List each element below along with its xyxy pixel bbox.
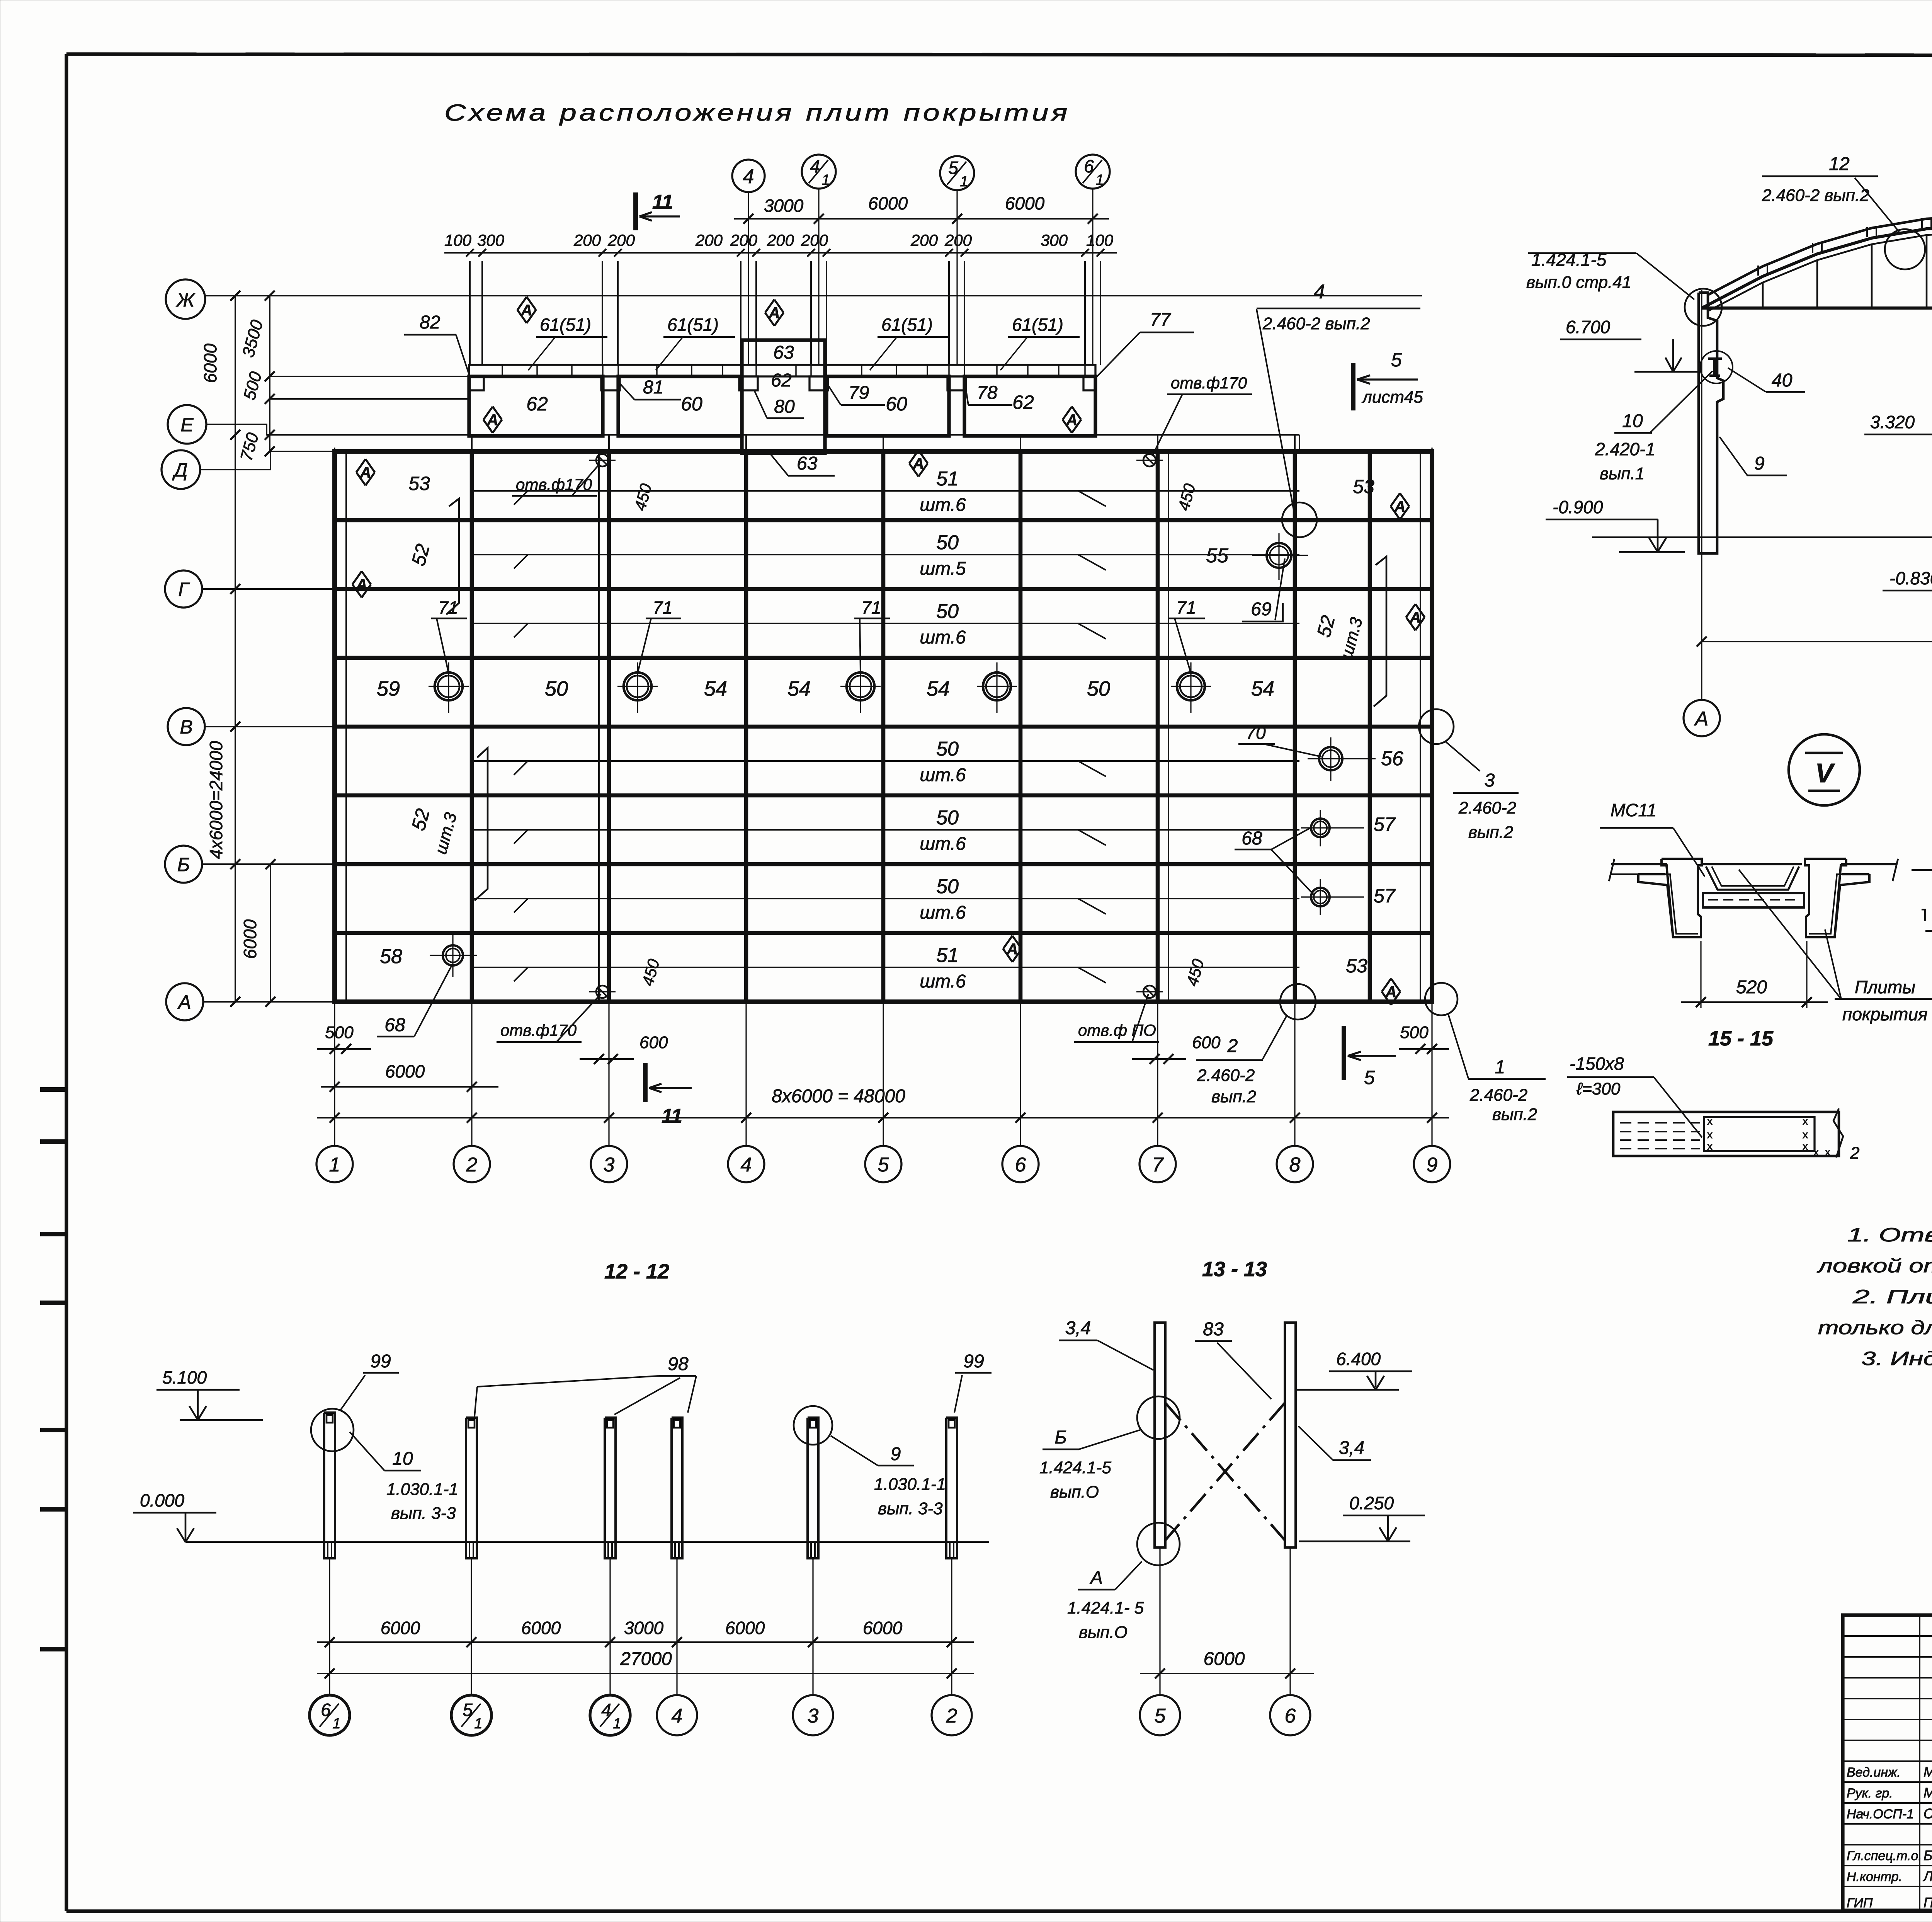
svg-text:Д: Д	[172, 459, 187, 481]
svg-text:5: 5	[1155, 1705, 1166, 1727]
svg-text:56: 56	[1381, 747, 1403, 770]
posts of section 12-12	[324, 1413, 335, 1558]
svg-text:200: 200	[910, 231, 938, 249]
svg-text:В: В	[180, 716, 192, 738]
svg-text:А: А	[356, 576, 367, 593]
svg-text:5: 5	[1391, 349, 1402, 371]
svg-text:3000: 3000	[764, 196, 804, 216]
svg-text:покрытия: покрытия	[1842, 1004, 1928, 1024]
svg-text:600: 600	[639, 1033, 668, 1052]
svg-text:4: 4	[810, 156, 820, 176]
svg-text:x: x	[1707, 1115, 1713, 1127]
detail V right adjacent slab	[1841, 863, 1897, 865]
svg-text:200: 200	[695, 231, 723, 249]
svg-text:Е: Е	[180, 414, 194, 436]
circle markers on row А cols 8 and 9	[1280, 984, 1316, 1020]
svg-text:x: x	[1803, 1129, 1808, 1141]
svg-text:59: 59	[377, 677, 400, 700]
svg-text:11: 11	[652, 191, 673, 213]
svg-text:50: 50	[936, 807, 959, 829]
svg-text:вып.2: вып.2	[1211, 1087, 1256, 1106]
svg-text:2.460-2 вып.2: 2.460-2 вып.2	[1262, 314, 1370, 333]
svg-text:200: 200	[944, 231, 972, 249]
axis lines 13-13	[1159, 1547, 1160, 1696]
axis circle Б	[202, 863, 335, 865]
svg-text:300: 300	[477, 231, 505, 249]
circle marker on column 8 top	[1282, 502, 1317, 537]
plan outline	[335, 451, 1432, 1002]
detail 15-15 plate plan	[1613, 1112, 1839, 1156]
title block outline	[1843, 1615, 1932, 1910]
svg-text:6: 6	[1084, 156, 1094, 176]
left vertical dimension chain 4x6000=24000	[235, 296, 236, 1002]
svg-text:вып.0 стр.41: вып.0 стр.41	[1526, 273, 1631, 292]
svg-text:А: А	[1066, 412, 1078, 429]
left dimension chain 3500/500	[269, 296, 270, 451]
svg-text:1. Отверстия ф 170 в пл: 1. Отверстия ф 170 в плитах покрытия вып…	[1847, 1224, 1932, 1246]
svg-text:1.424.1- 5: 1.424.1- 5	[1067, 1599, 1144, 1617]
svg-text:3: 3	[1485, 770, 1495, 791]
svg-text:50: 50	[1087, 677, 1110, 700]
arch end diagonals	[1702, 305, 1708, 308]
svg-text:40: 40	[1772, 370, 1793, 391]
svg-text:x: x	[1813, 1146, 1819, 1158]
svg-text:1.424.1-5: 1.424.1-5	[1039, 1458, 1111, 1477]
svg-text:6000: 6000	[381, 1618, 420, 1638]
svg-text:Петрашевский: Петрашевский	[1923, 1895, 1932, 1910]
svg-text:2: 2	[1227, 1036, 1238, 1056]
section flag 5 top right	[1351, 363, 1355, 410]
svg-text:50: 50	[936, 875, 959, 898]
upper plate support pads	[469, 376, 484, 390]
svg-text:0.250: 0.250	[1349, 1493, 1394, 1513]
svg-text:53: 53	[1353, 476, 1374, 497]
upper small dimension row	[444, 252, 1117, 254]
svg-text:99: 99	[963, 1351, 984, 1372]
svg-text:3,4: 3,4	[1065, 1318, 1091, 1338]
upper grid axis 4/1	[818, 188, 819, 365]
bottom dimension 500 left	[317, 1048, 371, 1050]
detail V dimension 520	[1700, 941, 1701, 1008]
svg-text:50: 50	[936, 600, 959, 623]
svg-text:100: 100	[1086, 231, 1114, 249]
svg-text:вып.2: вып.2	[1492, 1105, 1537, 1124]
X bracing dash-dot	[1165, 1403, 1285, 1540]
svg-text:шт.6: шт.6	[920, 834, 966, 854]
svg-text:1: 1	[1495, 1057, 1505, 1078]
svg-text:63: 63	[773, 342, 794, 363]
upper plate stub verticals	[469, 261, 471, 365]
svg-text:Моргунов: Моргунов	[1923, 1785, 1932, 1801]
svg-text:шт.5: шт.5	[920, 558, 966, 579]
svg-text:15 - 15: 15 - 15	[1708, 1027, 1774, 1050]
svg-text:54: 54	[927, 677, 950, 700]
svg-text:6: 6	[1015, 1154, 1026, 1176]
svg-text:51: 51	[936, 468, 959, 490]
svg-text:6000: 6000	[725, 1618, 765, 1638]
svg-text:А: А	[487, 412, 498, 429]
svg-text:6000: 6000	[200, 343, 220, 383]
posts 13-13	[1155, 1323, 1165, 1547]
svg-text:1: 1	[821, 172, 830, 188]
svg-text:5: 5	[463, 1700, 473, 1720]
circle marker 12 on roof	[1885, 229, 1925, 269]
svg-text:54: 54	[704, 677, 727, 700]
left column body	[1699, 293, 1723, 553]
thin roof plate band 61(51)	[469, 365, 1095, 376]
svg-text:11: 11	[662, 1105, 682, 1127]
svg-text:отв.ф170: отв.ф170	[1171, 374, 1247, 392]
sheet border frame	[66, 54, 1932, 56]
upper strip А diamonds	[527, 297, 536, 310]
svg-text:53: 53	[408, 473, 430, 494]
svg-text:54: 54	[1251, 677, 1274, 700]
plan thick column verticals	[470, 451, 474, 1002]
svg-text:6000: 6000	[240, 919, 260, 959]
upper plates left extension lines	[270, 376, 469, 377]
svg-text:58: 58	[380, 945, 402, 968]
svg-text:82: 82	[420, 312, 440, 333]
svg-text:3000: 3000	[624, 1618, 664, 1638]
svg-text:200: 200	[801, 231, 828, 249]
arch top chord	[1708, 226, 1932, 309]
detail V trough bottom plate	[1703, 893, 1804, 907]
svg-text:4: 4	[741, 1154, 752, 1176]
svg-text:3.320: 3.320	[1870, 412, 1915, 432]
svg-text:62: 62	[526, 393, 548, 415]
svg-text:10: 10	[1622, 411, 1643, 431]
svg-text:V: V	[1815, 758, 1835, 788]
svg-text:Б: Б	[1054, 1427, 1066, 1448]
svg-text:8х6000 = 48000: 8х6000 = 48000	[772, 1086, 905, 1107]
svg-text:12 - 12: 12 - 12	[604, 1260, 669, 1283]
svg-text:2.460-2 вып.2: 2.460-2 вып.2	[1762, 186, 1869, 205]
svg-text:Схема расположения плит пок: Схема расположения плит покрытия	[444, 100, 1070, 126]
svg-text:Ж: Ж	[175, 289, 196, 311]
upper grid axis 5/1	[956, 189, 957, 365]
svg-text:А: А	[913, 455, 924, 472]
svg-text:А: А	[1007, 941, 1018, 958]
svg-text:6000: 6000	[385, 1061, 425, 1081]
upper big plate 62 left	[469, 376, 603, 436]
svg-text:2.460-2: 2.460-2	[1469, 1086, 1527, 1105]
svg-text:Гл.спец.т.о.: Гл.спец.т.о.	[1847, 1849, 1922, 1863]
detail V trough element	[1703, 863, 1802, 865]
upper grid axis 6/1	[1092, 188, 1093, 365]
svg-text:6000: 6000	[1204, 1649, 1245, 1669]
svg-text:62: 62	[771, 370, 791, 391]
svg-text:шт.6: шт.6	[920, 627, 966, 648]
axis circle Д	[162, 450, 200, 489]
svg-text:ГИП: ГИП	[1847, 1896, 1873, 1910]
upper middle plate 63/62 column	[742, 340, 825, 453]
svg-text:Нач.ОСП-1: Нач.ОСП-1	[1847, 1807, 1914, 1822]
svg-text:79: 79	[849, 383, 869, 403]
svg-text:шт.6: шт.6	[920, 765, 966, 785]
svg-text:Вед.инж.: Вед.инж.	[1847, 1765, 1901, 1780]
svg-text:6: 6	[1285, 1705, 1296, 1727]
svg-text:Макарова: Макарова	[1923, 1764, 1932, 1780]
svg-text:6000: 6000	[868, 193, 908, 213]
svg-text:Г: Г	[178, 579, 190, 600]
svg-text:9: 9	[891, 1444, 901, 1464]
svg-text:9: 9	[1427, 1154, 1438, 1176]
svg-text:отв.ф ПО: отв.ф ПО	[1078, 1021, 1156, 1039]
dimension 6000 13-13	[1140, 1673, 1314, 1674]
small circles 57 with label 68	[1311, 819, 1330, 837]
svg-text:2. Плиты поз. 51 у оси: 2. Плиты поз. 51 у оси „ Ж ”, указанные …	[1852, 1286, 1932, 1307]
detail V left slab rib	[1662, 859, 1702, 937]
axis circles 12-12	[310, 1695, 350, 1735]
left column bearing circle	[1685, 289, 1722, 326]
svg-text:2.460-2: 2.460-2	[1197, 1066, 1255, 1085]
svg-text:4: 4	[601, 1700, 611, 1720]
band between rows Е and Д	[471, 435, 473, 451]
svg-text:1.030.1-1: 1.030.1-1	[386, 1480, 458, 1499]
upper big plate 60 right	[827, 376, 949, 436]
section dimension line 24000/750/6000	[1702, 641, 1932, 642]
svg-text:99: 99	[370, 1351, 391, 1372]
section flag 11 bottom	[643, 1063, 648, 1102]
bottom long dimension 8x6000=48000	[317, 1117, 1449, 1118]
svg-text:71: 71	[861, 598, 881, 618]
svg-text:80: 80	[774, 397, 795, 417]
svg-text:4: 4	[743, 165, 754, 188]
row axis line Ж	[205, 295, 1422, 296]
svg-text:50: 50	[936, 531, 959, 554]
plan thick horizontal plate lines	[335, 518, 1432, 523]
dimension 27000	[317, 1673, 974, 1674]
svg-text:Н.контр.: Н.контр.	[1847, 1869, 1902, 1884]
section flag 11 top	[633, 192, 638, 230]
svg-text:61(51): 61(51)	[1012, 315, 1063, 335]
svg-text:61(51): 61(51)	[881, 315, 933, 335]
svg-text:вып.О: вып.О	[1050, 1483, 1099, 1502]
svg-text:вып.1: вып.1	[1600, 464, 1645, 483]
svg-text:5: 5	[1364, 1067, 1375, 1088]
arch web verticals	[1762, 283, 1764, 306]
svg-text:5: 5	[948, 158, 958, 178]
svg-text:вып.О: вып.О	[1079, 1623, 1128, 1642]
svg-text:6.400: 6.400	[1336, 1349, 1381, 1369]
row axis line Е	[206, 424, 1299, 435]
svg-text:x: x	[1803, 1140, 1808, 1152]
svg-text:Рук. гр.: Рук. гр.	[1847, 1786, 1893, 1801]
svg-text:Б: Б	[177, 854, 190, 875]
small circle 55	[1267, 543, 1291, 568]
svg-text:Луценко: Луценко	[1923, 1868, 1932, 1884]
svg-text:А: А	[1694, 708, 1709, 730]
svg-text:62: 62	[1012, 392, 1034, 413]
svg-text:57: 57	[1374, 814, 1396, 835]
svg-text:МС11: МС11	[1611, 800, 1656, 820]
svg-text:2: 2	[466, 1154, 478, 1176]
dimension 6000 Б-А	[270, 864, 271, 1002]
bottom 600 dimensions	[580, 1058, 634, 1060]
svg-text:x: x	[1825, 1146, 1830, 1158]
svg-text:1: 1	[1095, 172, 1104, 188]
svg-text:только для II снегового рай: только для II снегового района.	[1818, 1317, 1932, 1338]
svg-text:200: 200	[573, 231, 601, 249]
svg-text:отв.ф170: отв.ф170	[500, 1021, 577, 1039]
big plate hole circles row	[435, 672, 463, 700]
svg-text:ловкой отверстий по периметру: ловкой отверстий по периметру с последую…	[1816, 1255, 1932, 1277]
svg-text:вып. 3-3: вып. 3-3	[391, 1504, 456, 1523]
left column axis А	[1701, 290, 1702, 642]
plan axis circles 1-9	[316, 1146, 353, 1182]
plan column axis lines	[334, 448, 335, 1145]
svg-text:68: 68	[384, 1015, 405, 1035]
svg-text:60: 60	[681, 393, 702, 415]
svg-text:71: 71	[653, 598, 672, 618]
svg-text:шт.6: шт.6	[920, 971, 966, 992]
svg-text:4: 4	[672, 1705, 683, 1727]
svg-text:6000: 6000	[521, 1618, 561, 1638]
svg-text:3: 3	[604, 1154, 615, 1176]
svg-text:13 - 13: 13 - 13	[1202, 1258, 1267, 1281]
svg-text:600: 600	[1192, 1033, 1221, 1052]
svg-text:500: 500	[325, 1023, 354, 1042]
holes отв.ф170 at plan edges	[596, 454, 609, 466]
svg-text:Плиты: Плиты	[1855, 977, 1915, 997]
axis circle Г	[202, 588, 335, 590]
axis circle А	[203, 1001, 335, 1003]
svg-text:Боярченко: Боярченко	[1923, 1847, 1932, 1863]
svg-text:69: 69	[1251, 599, 1271, 620]
svg-text:78: 78	[977, 383, 998, 403]
arch bottom chord	[1702, 306, 1932, 310]
svg-text:61(51): 61(51)	[667, 315, 719, 335]
svg-text:520: 520	[1736, 977, 1767, 998]
svg-text:ℓ=300: ℓ=300	[1576, 1079, 1621, 1098]
svg-text:83: 83	[1203, 1319, 1224, 1340]
svg-text:54: 54	[787, 677, 811, 700]
svg-text:6000: 6000	[1005, 193, 1045, 213]
plan thin quarter lines	[472, 490, 1299, 492]
svg-text:5: 5	[878, 1154, 889, 1176]
axis circle Е	[168, 405, 206, 444]
svg-text:4: 4	[1314, 281, 1325, 303]
svg-text:200: 200	[730, 231, 758, 249]
svg-text:70: 70	[1246, 723, 1266, 743]
svg-text:50: 50	[936, 738, 959, 760]
svg-text:3: 3	[808, 1705, 819, 1727]
svg-text:5.100: 5.100	[162, 1367, 207, 1387]
svg-text:77: 77	[1150, 310, 1172, 330]
svg-text:68: 68	[1242, 828, 1262, 849]
svg-text:Саакьянц: Саакьянц	[1923, 1806, 1932, 1822]
dimension row 12-12	[317, 1641, 974, 1643]
upper grid axis 4	[748, 192, 749, 365]
small circle 56 and label 70	[1319, 747, 1342, 770]
svg-text:61(51): 61(51)	[540, 315, 591, 335]
svg-text:-0.900: -0.900	[1553, 497, 1603, 517]
svg-text:вып.2: вып.2	[1468, 823, 1513, 842]
svg-text:81: 81	[643, 377, 663, 398]
axis circles 5 6	[1140, 1695, 1180, 1735]
svg-text:1: 1	[474, 1716, 482, 1732]
svg-text:60: 60	[886, 393, 907, 415]
svg-text:2.460-2: 2.460-2	[1458, 798, 1516, 817]
svg-text:1.030.1-1: 1.030.1-1	[874, 1475, 946, 1494]
svg-text:шт.6: шт.6	[920, 902, 966, 923]
left border fold ticks	[40, 1087, 68, 1092]
svg-text:-0.830: -0.830	[1889, 568, 1932, 588]
svg-text:71: 71	[1176, 598, 1196, 618]
svg-text:x: x	[1803, 1115, 1808, 1127]
ground line	[1592, 536, 1932, 538]
svg-text:3,4: 3,4	[1339, 1438, 1365, 1458]
svg-text:А: А	[1385, 984, 1397, 1001]
svg-text:1: 1	[332, 1716, 340, 1732]
svg-text:63: 63	[797, 453, 818, 474]
svg-text:А: А	[1410, 609, 1421, 626]
svg-text:10: 10	[392, 1449, 413, 1469]
bottom dimension 6000 cols 1-2	[321, 1086, 498, 1088]
svg-text:8: 8	[1289, 1154, 1301, 1176]
svg-text:6: 6	[321, 1700, 331, 1720]
svg-text:100: 100	[444, 231, 472, 249]
svg-text:-150х8: -150х8	[1570, 1054, 1624, 1074]
svg-text:55: 55	[1206, 545, 1229, 567]
svg-text:9: 9	[1754, 453, 1765, 474]
svg-text:12: 12	[1829, 154, 1849, 174]
plan inner 500 offset verticals	[345, 451, 347, 1002]
detail V right slab rib	[1805, 859, 1846, 937]
axis circle Ж	[166, 279, 205, 319]
svg-text:4х6000=24000: 4х6000=24000	[206, 741, 226, 859]
svg-text:1: 1	[613, 1716, 621, 1732]
upper big plate 62 right	[964, 376, 1095, 436]
svg-text:57: 57	[1374, 885, 1396, 907]
detail V circle title	[1789, 734, 1860, 805]
svg-text:300: 300	[1041, 231, 1068, 249]
small circle 58 and label 68 bottom	[443, 945, 463, 965]
svg-text:2.420-1: 2.420-1	[1595, 439, 1655, 459]
bottom dimension 500 right	[1399, 1048, 1449, 1050]
svg-text:А: А	[769, 305, 780, 322]
svg-text:А: А	[521, 302, 532, 319]
svg-text:1: 1	[960, 174, 968, 190]
ground line 0.000 section 12-12	[185, 1541, 989, 1543]
svg-text:27000: 27000	[620, 1649, 672, 1669]
section flag 5 bottom	[1342, 1026, 1346, 1080]
svg-text:6000: 6000	[863, 1618, 903, 1638]
label 9 callout 1.030.1-1	[794, 1406, 832, 1445]
svg-text:А: А	[177, 991, 191, 1013]
svg-text:50: 50	[545, 677, 568, 700]
T-symbol 40 left	[1708, 358, 1722, 360]
svg-text:x: x	[1707, 1129, 1713, 1141]
svg-text:А: А	[1394, 498, 1406, 515]
svg-text:500: 500	[1400, 1023, 1429, 1042]
svg-text:51: 51	[936, 944, 959, 967]
svg-text:200: 200	[767, 231, 794, 249]
svg-text:53: 53	[1346, 955, 1367, 977]
svg-text:6.700: 6.700	[1566, 317, 1611, 337]
plan corner А diamonds and 53 labels	[366, 459, 375, 472]
svg-text:А: А	[1089, 1568, 1103, 1588]
svg-text:98: 98	[668, 1354, 689, 1374]
svg-text:вып. 3-3: вып. 3-3	[878, 1499, 943, 1518]
svg-text:1: 1	[329, 1154, 340, 1176]
svg-text:7: 7	[1152, 1154, 1164, 1176]
svg-text:2: 2	[946, 1705, 957, 1727]
plate edge double lines near columns 3 and 7	[598, 451, 600, 1002]
svg-text:0.000: 0.000	[140, 1490, 185, 1510]
title block left table	[1843, 1635, 1932, 1637]
svg-text:А: А	[360, 464, 371, 481]
